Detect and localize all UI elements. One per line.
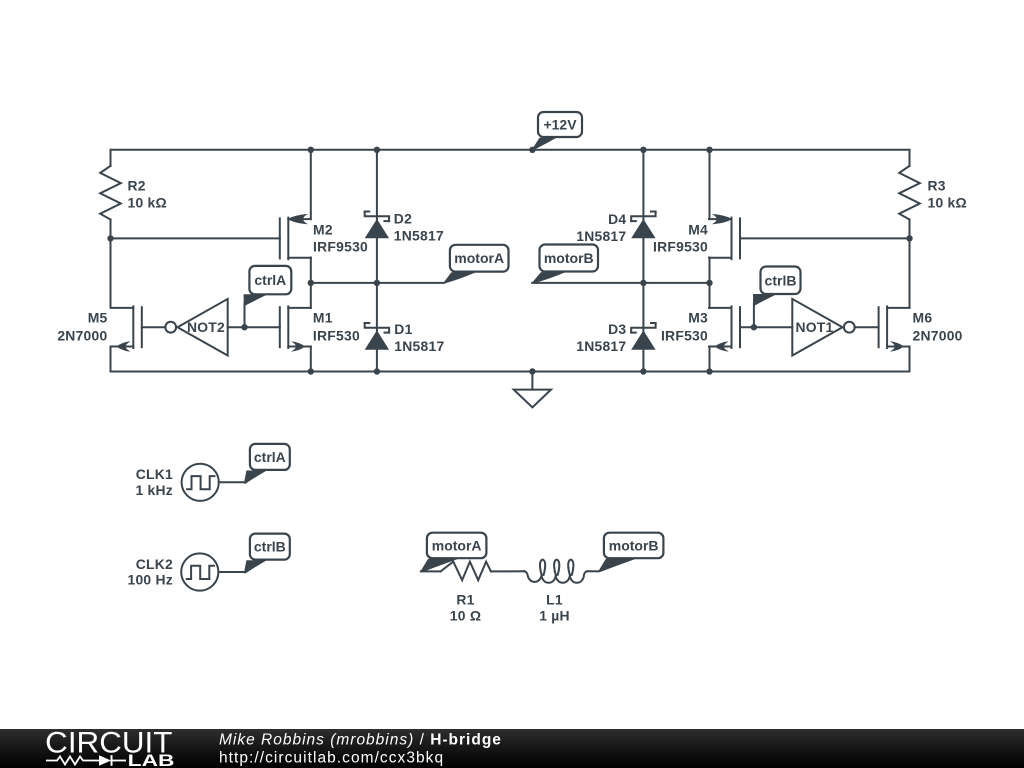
- transistor M2 (PMOS IRF9530): [280, 214, 311, 259]
- wire left rail upper segment: [110, 150, 112, 307]
- node motorB flag (bridge): [531, 245, 598, 284]
- wire ctrlA drop: [244, 304, 246, 328]
- svg-text:ctrlB: ctrlB: [765, 272, 797, 288]
- transistor M3 (NMOS IRF530): [709, 306, 740, 351]
- footer url text: [219, 750, 444, 767]
- wire R1 to L1: [491, 570, 525, 572]
- svg-text:1N5817: 1N5817: [394, 228, 444, 244]
- diode D4 (1N5817): [631, 212, 655, 239]
- svg-text:L1: L1: [546, 592, 563, 608]
- resistor R1: [441, 562, 491, 581]
- diode D2 (1N5817): [365, 212, 389, 239]
- svg-text:M1: M1: [313, 309, 333, 325]
- diode D3 (1N5817): [631, 323, 655, 350]
- node ctrlB flag (bridge): [753, 267, 801, 306]
- label M3: [661, 309, 708, 343]
- wire M2-M1 column: [310, 150, 312, 372]
- svg-text:1 µH: 1 µH: [539, 607, 570, 623]
- svg-text:M6: M6: [913, 309, 933, 325]
- svg-text:R3: R3: [928, 178, 946, 194]
- junction dots motor rows: [308, 280, 713, 286]
- wire NOT2 output to M5 gate: [142, 326, 166, 328]
- svg-text:IRF530: IRF530: [661, 327, 708, 343]
- label D1: [394, 321, 444, 354]
- wire D2-D1 column: [376, 150, 378, 372]
- wire D4-D3 column: [642, 150, 644, 372]
- transistor M1 (NMOS IRF530): [280, 306, 311, 351]
- wire NOT2 input to M1 gate: [228, 326, 280, 328]
- inductor L1: [524, 560, 588, 583]
- svg-text:M4: M4: [688, 222, 708, 238]
- wire L1 to motorB: [587, 570, 599, 572]
- svg-text:1N5817: 1N5817: [576, 338, 626, 354]
- label M5: [57, 309, 107, 343]
- svg-text:ctrlB: ctrlB: [254, 539, 286, 555]
- junction dots ctrl nodes: [241, 324, 757, 330]
- label M6: [913, 309, 963, 343]
- footer bar: [0, 729, 1024, 768]
- node motorA flag (bridge): [443, 245, 509, 284]
- svg-text:10 Ω: 10 Ω: [450, 607, 481, 623]
- resistor R3: [899, 166, 920, 220]
- svg-text:1N5817: 1N5817: [576, 228, 626, 244]
- node ctrlA flag (bridge): [244, 266, 292, 306]
- wire M3 gate to NOT1 input: [740, 326, 792, 328]
- svg-text:IRF9530: IRF9530: [313, 238, 368, 254]
- resistor R2: [100, 166, 121, 220]
- wire top +12V rail: [111, 149, 910, 151]
- label CLK1: [135, 466, 173, 498]
- svg-text:IRF9530: IRF9530: [653, 238, 708, 254]
- svg-text:CLK1: CLK1: [136, 466, 173, 482]
- ground: [514, 372, 551, 408]
- svg-text:+12V: +12V: [543, 117, 577, 133]
- svg-text:2N7000: 2N7000: [913, 327, 963, 343]
- svg-text:2N7000: 2N7000: [57, 327, 107, 343]
- transistor M5 (NMOS 2N7000): [111, 306, 142, 351]
- wire left rail lower segment: [110, 347, 112, 372]
- wire gate row left (R2 to M2 gate): [111, 237, 280, 239]
- wire NOT1 output to M6 gate: [855, 326, 879, 328]
- label CLK2: [127, 556, 173, 588]
- power flag +12V: [532, 112, 582, 150]
- voltage source CLK1: [182, 464, 245, 501]
- svg-text:M3: M3: [688, 309, 708, 325]
- svg-text:10 kΩ: 10 kΩ: [128, 194, 167, 210]
- svg-text:M2: M2: [313, 222, 333, 238]
- wire bottom ground rail: [111, 371, 910, 373]
- svg-text:M5: M5: [88, 309, 108, 325]
- CircuitLab logo LAB: [128, 751, 175, 768]
- svg-text:R2: R2: [128, 178, 146, 194]
- wire gate row right (M4 gate to R3): [740, 237, 910, 239]
- label R1: [450, 592, 481, 624]
- transistor M6 (NMOS 2N7000): [879, 306, 910, 351]
- svg-text:D1: D1: [394, 321, 412, 337]
- label D3: [576, 321, 626, 354]
- label M1: [313, 309, 360, 343]
- wire motorB row: [532, 282, 709, 284]
- svg-text:100 Hz: 100 Hz: [127, 572, 173, 588]
- svg-text:Mike Robbins (mrobbins) / H-br: Mike Robbins (mrobbins) / H-bridge: [219, 732, 502, 749]
- wire motorA to R1: [421, 570, 441, 572]
- diode D1 (1N5817): [365, 323, 389, 350]
- junction dots top rail: [308, 147, 713, 153]
- op-amp NOT1 (inverter, points right): [792, 299, 854, 356]
- CircuitLab logo schematic doodle: [46, 755, 126, 766]
- label M2: [313, 222, 368, 255]
- node ctrlB flag (CLK2): [244, 534, 290, 574]
- label D4: [576, 211, 626, 244]
- svg-text:CLK2: CLK2: [136, 556, 173, 572]
- svg-text:D2: D2: [394, 210, 412, 226]
- label R3 value: [928, 178, 967, 211]
- svg-text:motorA: motorA: [454, 250, 504, 266]
- wire ctrlB drop: [753, 304, 755, 328]
- svg-text:motorB: motorB: [544, 250, 594, 266]
- svg-text:1N5817: 1N5817: [394, 338, 444, 354]
- label D2: [394, 210, 444, 243]
- svg-text:D4: D4: [608, 211, 626, 227]
- label NOT2: [187, 319, 225, 335]
- footer title text: [219, 732, 502, 749]
- label NOT1: [795, 319, 833, 335]
- wire right rail lower segment: [909, 347, 911, 372]
- wire M4-M3 column: [709, 150, 711, 372]
- svg-text:IRF530: IRF530: [313, 327, 360, 343]
- node ctrlA flag (CLK1): [244, 444, 290, 484]
- svg-text:ctrlA: ctrlA: [254, 272, 286, 288]
- svg-text:1 kHz: 1 kHz: [135, 482, 173, 498]
- CircuitLab logo wordmark: [45, 726, 172, 759]
- voltage source CLK2: [181, 553, 244, 590]
- label R2 value: [128, 178, 167, 211]
- svg-text:R1: R1: [456, 592, 474, 608]
- op-amp NOT2 (inverter, points left): [165, 299, 227, 356]
- svg-text:motorA: motorA: [432, 537, 482, 553]
- label L1: [539, 592, 570, 624]
- junction dots gate row: [107, 235, 912, 241]
- svg-text:NOT1: NOT1: [795, 319, 833, 335]
- junction dots bottom rail: [308, 368, 713, 374]
- transistor M4 (PMOS IRF9530): [709, 214, 740, 259]
- svg-text:NOT2: NOT2: [187, 319, 225, 335]
- svg-text:10 kΩ: 10 kΩ: [928, 194, 967, 210]
- svg-text:ctrlA: ctrlA: [254, 449, 286, 465]
- svg-text:D3: D3: [608, 321, 626, 337]
- node motorA flag (load): [420, 533, 486, 572]
- label M4: [653, 222, 708, 255]
- svg-text:http://circuitlab.com/ccx3bkq: http://circuitlab.com/ccx3bkq: [219, 750, 444, 767]
- svg-text:LAB: LAB: [128, 751, 175, 768]
- svg-text:motorB: motorB: [609, 537, 659, 553]
- node motorB flag (load): [598, 533, 664, 572]
- wire motorA row: [311, 282, 444, 284]
- wire right rail upper segment: [909, 150, 911, 307]
